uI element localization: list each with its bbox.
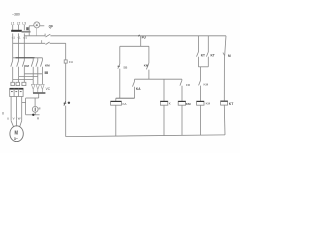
label SB1 dot [68, 102, 70, 104]
wire control rail 2 left [13, 42, 46, 44]
svg-text:L2: L2 [17, 21, 21, 25]
wire SB2 branch upper [119, 46, 121, 64]
svg-text:KT: KT [211, 53, 215, 57]
lamp HL feed left [29, 25, 34, 27]
svg-text:U: U [7, 117, 9, 121]
contactor KM1 blade pole1 [11, 61, 13, 67]
wire phase L3 upper [23, 25, 25, 30]
label contact branch4 [204, 83, 209, 87]
label R [37, 116, 40, 120]
rectifier VC cathode bar [33, 92, 45, 94]
contact branch4 [199, 80, 201, 85]
svg-text:K: K [169, 102, 171, 106]
label KM latch [144, 64, 149, 68]
wire branch3 to bus [181, 105, 183, 135]
svg-text:W: W [18, 117, 21, 121]
wire branch4 mid [200, 67, 202, 80]
svg-text:KM: KM [45, 64, 50, 68]
wire bottom bus [66, 135, 225, 137]
svg-text:KA: KA [136, 87, 141, 91]
wire branch3 upper [181, 79, 183, 80]
wire phase L1 lower [12, 33, 14, 60]
terminal labels u1 v1 w1 [12, 35, 28, 39]
wire bar y98 [116, 97, 135, 99]
rectifier VC diode3 [41, 84, 45, 89]
wire ammeter stub top [34, 98, 36, 106]
wire crossover 2 [19, 76, 38, 78]
label coil KM3 [186, 102, 191, 106]
wire loop left [25, 98, 27, 115]
junction dot loop [32, 114, 34, 116]
wire KT column A upper [197, 36, 199, 52]
contactor KM2 blade pole1 [31, 61, 33, 67]
contact KM latch [146, 63, 149, 69]
wire phase L2 lower [18, 33, 20, 60]
label KM2 [45, 64, 50, 68]
wire crossover 1 [24, 73, 42, 75]
junction blob node a [26, 27, 29, 30]
svg-text:SB: SB [123, 66, 127, 70]
svg-text:v1: v1 [18, 35, 21, 39]
rectifier VC diode2 [36, 84, 40, 89]
label KA drop [136, 87, 141, 91]
svg-text:M: M [228, 54, 231, 58]
wire branch5 corner from rail1 [224, 36, 226, 101]
wire bar y47 [120, 45, 149, 47]
contact KA drop [133, 81, 135, 86]
wire motor lead V [16, 97, 18, 121]
wire left control rail upper [65, 43, 67, 60]
svg-text:KM: KM [144, 64, 149, 68]
wire KA drop lower [134, 87, 136, 98]
svg-text:FR: FR [186, 83, 191, 87]
svg-text:~380: ~380 [12, 12, 20, 16]
label coil KT [229, 102, 234, 106]
svg-text:QF: QF [49, 24, 53, 28]
label FU2 [69, 60, 73, 64]
wire join bar y67 [198, 66, 208, 68]
label M branch5 [228, 54, 231, 58]
wire phase L3 lower [23, 33, 25, 60]
contactor KM2 column2 upper [37, 58, 39, 61]
wire control rail 1 main [50, 35, 226, 37]
wire branch5 to bus [223, 105, 226, 135]
button SB2 start [118, 64, 120, 69]
svg-text:FU: FU [69, 60, 73, 64]
label KM1 [24, 64, 29, 68]
svg-text:VC: VC [46, 87, 51, 91]
lamp HL stub down [35, 28, 37, 36]
fuse FU3 tick [138, 35, 139, 37]
wire branch4 lower [200, 86, 202, 102]
wire rectifier to loop [38, 93, 40, 98]
wire phase L1 upper [12, 25, 14, 30]
label FU3 [142, 36, 147, 40]
fuse FU1 pole2 [16, 82, 20, 85]
contact KT A [197, 52, 199, 57]
svg-text:KA: KA [123, 102, 127, 106]
coil K2 [160, 101, 167, 105]
label SB2 [123, 66, 127, 70]
label coil K2 [169, 102, 171, 106]
svg-text:KM: KM [206, 102, 211, 106]
wire phase L2 upper [18, 25, 20, 30]
button SB1 stop [64, 101, 66, 105]
wire loop bottom [26, 114, 40, 116]
contactor KM2 column1 upper [32, 58, 34, 61]
wire SB2 branch lower [119, 69, 121, 99]
wire phase drops to fuses [12, 79, 14, 82]
wire KM2 col1 to diode [32, 79, 34, 84]
label KT B [211, 53, 215, 57]
label V [13, 117, 15, 121]
contactor KM1 blade pole2 [17, 61, 19, 67]
wire crossover 3 [13, 78, 34, 80]
junction tap row feeding KM2 columns [13, 57, 43, 59]
wire branch3 mid [181, 86, 183, 101]
label QF [49, 24, 53, 28]
wire bar y79 [135, 78, 182, 80]
switch QF blade [46, 34, 51, 37]
wire KA drop upper [134, 79, 136, 81]
label U [7, 117, 9, 121]
fuse FU1 pole3 [22, 82, 26, 85]
svg-text:L1: L1 [11, 21, 15, 25]
contactor KM1 blade pole3 [22, 61, 24, 67]
svg-text:R: R [37, 116, 40, 120]
lamp HL [34, 22, 40, 28]
rectifier VC diode1 [31, 84, 35, 89]
svg-text:L3: L3 [22, 21, 26, 25]
label VC [46, 87, 51, 91]
coil KM4 [197, 101, 204, 105]
label W [18, 117, 21, 121]
wire control rail 1 left segment [25, 35, 46, 37]
contactor KM2 blade pole2 [36, 61, 38, 67]
wire ammeter bottom [34, 112, 36, 115]
node L2 [17, 21, 21, 25]
svg-text:KM: KM [24, 64, 29, 68]
wire motor lead W [21, 97, 23, 121]
wire FR to loop stub [22, 102, 26, 104]
svg-text:V: V [13, 117, 15, 121]
wire diode stubs [32, 89, 34, 92]
svg-text:3~: 3~ [14, 137, 18, 141]
heater marks in FR [11, 91, 13, 93]
motor M [10, 126, 23, 142]
node L1 [11, 21, 15, 25]
label contact branch3 [186, 83, 191, 87]
wire left control rail lower [65, 106, 67, 137]
wire KT column B lower [207, 57, 209, 67]
switch QF tick [44, 34, 46, 37]
fuse FU2 [64, 60, 67, 63]
wire branch2 to bus [163, 105, 165, 135]
wire motor entries [11, 121, 22, 127]
svg-text:KT: KT [201, 53, 205, 57]
switch tick rail 2 [41, 40, 43, 43]
wire control rail 2 right [50, 42, 66, 44]
speck A [39, 107, 41, 109]
contactor KM2 blade pole3 [41, 61, 43, 67]
switch QS bar step2 [22, 31, 31, 33]
wire coil KA to bus [115, 105, 117, 136]
coil KT [221, 101, 228, 105]
label coil KA [123, 102, 127, 106]
svg-text:M: M [15, 130, 19, 136]
wire motor lead U [10, 97, 12, 121]
lamp HL feed right [40, 25, 45, 27]
contact KT B [206, 52, 208, 57]
ammeter PA [32, 106, 38, 112]
wire KT column A lower [197, 57, 199, 67]
svg-text:KM: KM [186, 102, 191, 106]
switch QS bar step1 [11, 30, 22, 32]
fuse FU1 pole1 [11, 82, 15, 85]
wire branch feed from rail1 [140, 36, 142, 47]
label blob node b [45, 71, 48, 74]
contact branch3 [180, 80, 182, 85]
speck [2, 112, 4, 115]
wire KT column B upper [207, 36, 209, 52]
wire branch4 to bus [200, 105, 202, 135]
thermal relay FR box [10, 89, 23, 97]
supply label ~380V [12, 12, 20, 16]
coil KA [115, 98, 117, 101]
contactor KM2 column3 upper [41, 58, 43, 61]
wire left control rail mid [65, 63, 67, 101]
wire branch2 drop [163, 79, 165, 101]
node L3 [22, 21, 26, 25]
svg-text:FU: FU [142, 36, 147, 40]
label coil KM4 [206, 102, 211, 106]
label KT A [201, 53, 205, 57]
coil KM3 [178, 101, 185, 105]
wire KM latch branch upper [148, 46, 150, 63]
switch blade rail 2 [46, 42, 50, 45]
svg-text:KM: KM [204, 83, 209, 87]
wire KM latch branch lower [148, 70, 150, 80]
svg-text:KT: KT [229, 102, 234, 106]
